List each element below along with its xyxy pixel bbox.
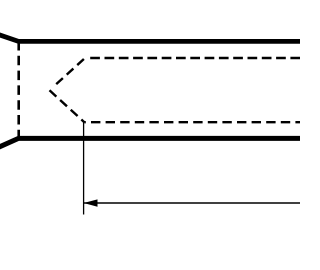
dimension arrowhead (points left)	[84, 199, 98, 206]
top wall outline with flared left end	[0, 34, 303, 41]
hidden line: bore bottom (horizontal dashed)	[84, 121, 303, 123]
hidden line: left end face (vertical dashed)	[17, 41, 20, 139]
dimension line	[84, 202, 303, 204]
hidden line: bore top (horizontal dashed)	[88, 57, 303, 59]
hidden line: bore cone upper edge (dashed diagonal)	[53, 58, 85, 87]
bottom wall outline with flared left end	[0, 138, 303, 148]
extension line	[83, 121, 85, 215]
hidden line: bore cone lower edge (dashed diagonal)	[50, 90, 85, 122]
